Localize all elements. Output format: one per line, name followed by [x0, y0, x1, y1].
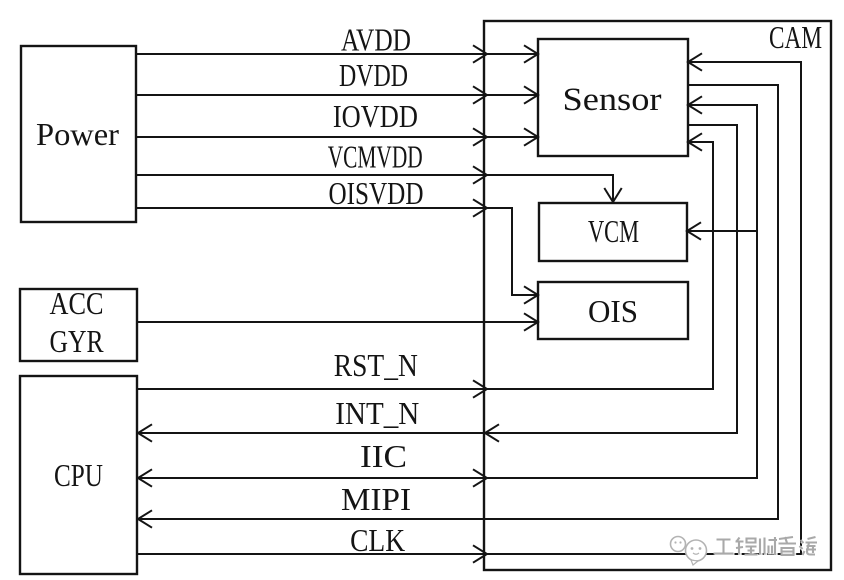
svg-text:OIS: OIS	[588, 293, 638, 329]
wire OISVDD	[136, 199, 538, 303]
svg-text:INT_N: INT_N	[335, 395, 419, 431]
block CPU	[20, 376, 137, 574]
block Power	[21, 46, 136, 222]
wire DVDD	[136, 86, 538, 103]
block VCM	[539, 203, 687, 261]
wire AVDD	[136, 45, 538, 62]
block OIS	[538, 282, 688, 339]
svg-text:VCM: VCM	[588, 213, 639, 249]
wire IOVDD	[136, 128, 538, 145]
svg-text:GYR: GYR	[50, 323, 105, 359]
svg-text:VCMVDD: VCMVDD	[328, 139, 423, 175]
wire CLK	[137, 53, 801, 562]
svg-text:CAM: CAM	[769, 19, 822, 55]
svg-text:ACC: ACC	[50, 285, 104, 321]
svg-text:DVDD: DVDD	[339, 57, 408, 93]
wire MIPI	[137, 85, 778, 528]
svg-text:MIPI: MIPI	[341, 481, 411, 517]
wire IIC	[137, 96, 757, 486]
watermark text	[715, 538, 819, 556]
svg-text:CLK: CLK	[350, 522, 405, 558]
svg-text:RST_N: RST_N	[334, 347, 418, 383]
svg-text:Power: Power	[36, 116, 119, 152]
wire IIC branch to VCM	[687, 222, 757, 239]
svg-text:OISVDD: OISVDD	[329, 175, 424, 211]
svg-text:CPU: CPU	[54, 457, 103, 493]
wire VCMVDD	[136, 166, 622, 202]
wire INT_N	[137, 125, 737, 442]
svg-text:Sensor: Sensor	[563, 82, 662, 118]
wire ACC/GYR to OIS	[137, 313, 538, 330]
svg-text:IOVDD: IOVDD	[333, 98, 418, 134]
block ACC/GYR	[20, 289, 137, 361]
block Sensor	[538, 39, 688, 156]
watermark logo	[671, 537, 707, 566]
block CAM	[484, 21, 831, 570]
wire RST_N	[137, 133, 713, 397]
svg-text:AVDD: AVDD	[341, 22, 411, 58]
svg-text:IIC: IIC	[360, 438, 407, 474]
